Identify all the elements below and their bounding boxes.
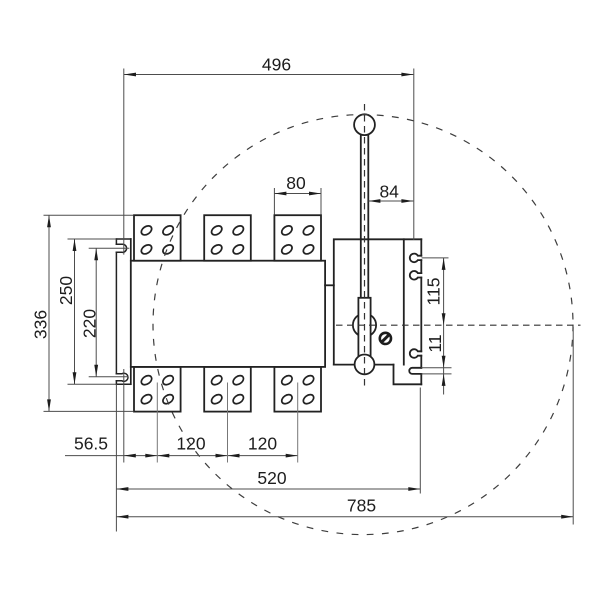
arrow 785 right (561, 515, 573, 519)
dim 56.5 and 120 line (65, 455, 298, 457)
oval holes block 1 (140, 224, 175, 256)
svg-text:220: 220 (80, 309, 100, 338)
oval holes block 2 (210, 224, 245, 256)
handle bottom ball (355, 355, 375, 375)
arrow 84 right (401, 199, 413, 203)
dim 336 ext (44, 215, 134, 411)
arrow 520 left (116, 487, 128, 491)
dim 11 ext (421, 368, 451, 374)
dim 496 ext left (123, 69, 125, 255)
dim 84 line (368, 200, 413, 202)
flange inner line (403, 239, 405, 364)
dim 496 line (124, 74, 413, 76)
arrow 120b right (286, 454, 298, 458)
arrow 115 bottom (442, 313, 446, 325)
body main rectangle (131, 261, 325, 367)
arrow 56.5 right (145, 454, 157, 458)
plate-body connection tick (325, 284, 334, 286)
arrow 336 bottom (47, 399, 51, 411)
arrow 496 left (124, 73, 136, 77)
arrow 56.5 left (124, 454, 136, 458)
arrow 11 top (442, 356, 446, 368)
terminal oval holes (140, 224, 316, 406)
oval holes block 6 (280, 374, 315, 406)
pivot circle (353, 314, 376, 337)
arrowheads (47, 73, 573, 519)
bracket outer edge segments (115, 239, 117, 384)
svg-text:80: 80 (286, 173, 306, 193)
arrow 250 bottom (73, 372, 77, 384)
arrow 336 top (47, 215, 51, 227)
arrow 80 right (309, 192, 321, 196)
oval holes block 5 (210, 374, 245, 406)
oval holes block 4 (140, 374, 175, 406)
arrow 496 right (401, 73, 413, 77)
svg-text:120: 120 (176, 434, 205, 454)
screw (380, 333, 391, 344)
arrow 220 top (94, 248, 98, 260)
svg-text:336: 336 (31, 310, 51, 339)
mechanism plate outline (334, 239, 422, 364)
long mounting slot (409, 368, 421, 374)
svg-text:785: 785 (347, 496, 376, 516)
handle thin shaft (361, 134, 369, 298)
svg-text:496: 496 (262, 55, 291, 75)
dimension lines (44, 69, 574, 532)
bracket top hook tab (116, 244, 126, 252)
arrow 115 top (442, 258, 446, 270)
arrow 785 left (116, 515, 128, 519)
bracket bottom edge (116, 383, 130, 385)
dim 80 line (274, 193, 321, 195)
handle assembly (353, 114, 391, 374)
terminal block top 1 (134, 215, 181, 261)
dim 115 ext (422, 257, 449, 259)
dim 785 line (116, 516, 573, 518)
dim 80 ext (274, 188, 321, 215)
dim 496 ext right (413, 69, 415, 241)
oval holes block 3 (280, 224, 315, 256)
terminal block bottom 1 (134, 367, 181, 412)
dim 220 ext (89, 248, 130, 377)
arrow 120b left (228, 454, 240, 458)
arrow 220 bottom (94, 365, 98, 377)
arrow 84 left (368, 199, 380, 203)
svg-text:84: 84 (379, 182, 399, 202)
left shared ext for 520 785 (115, 384, 117, 531)
dim 520 line (116, 488, 420, 490)
dimension texts (31, 55, 445, 516)
terminal block top 2 (204, 215, 251, 261)
terminal block bottom 3 (274, 367, 321, 412)
handle wide shaft (358, 298, 370, 360)
keyhole slot 2 (410, 271, 421, 280)
arrow 250 top (73, 239, 77, 251)
vertical handle centerline (364, 104, 366, 388)
body left edge lower segment (130, 367, 132, 384)
plate bottom edge (334, 364, 394, 366)
arrow 80 left (274, 192, 286, 196)
svg-text:11: 11 (425, 334, 445, 352)
svg-text:120: 120 (248, 434, 277, 454)
svg-text:115: 115 (424, 278, 444, 306)
dim 250 ext (68, 239, 117, 384)
bottom tab (394, 365, 422, 385)
svg-text:250: 250 (56, 276, 76, 305)
dim 56.5 ext (123, 369, 125, 463)
arrow 120a right (216, 454, 228, 458)
arrow 520 right (408, 487, 420, 491)
dim 250 line (74, 239, 76, 384)
bracket top edge (116, 238, 130, 240)
bracket bottom hook tab (116, 373, 128, 381)
body left edge upper segment (130, 239, 132, 261)
arrow 120a left (157, 454, 169, 458)
svg-text:520: 520 (257, 468, 286, 488)
dashed swing circle (153, 115, 573, 535)
dim 220 line (95, 248, 97, 377)
terminal block bottom 2 (204, 367, 251, 412)
dim 115 and 11 line (443, 258, 445, 395)
arrow 11 bottom (442, 374, 446, 386)
horizontal centerline (336, 324, 581, 326)
dim 120 ext lines (157, 383, 297, 463)
dim 336 line (48, 215, 50, 411)
terminal block top 3 (274, 215, 321, 261)
handle knob ball (354, 114, 375, 135)
dim 785 ext right (572, 327, 574, 525)
flange outer edge segments (420, 239, 422, 384)
svg-text:56.5: 56.5 (74, 434, 108, 454)
right mechanism assembly (325, 239, 421, 384)
left mounting bracket (116, 239, 130, 384)
dim 520 ext right (419, 388, 421, 494)
keyhole slot 1 (410, 254, 421, 263)
keyhole slot 3 (410, 349, 421, 358)
